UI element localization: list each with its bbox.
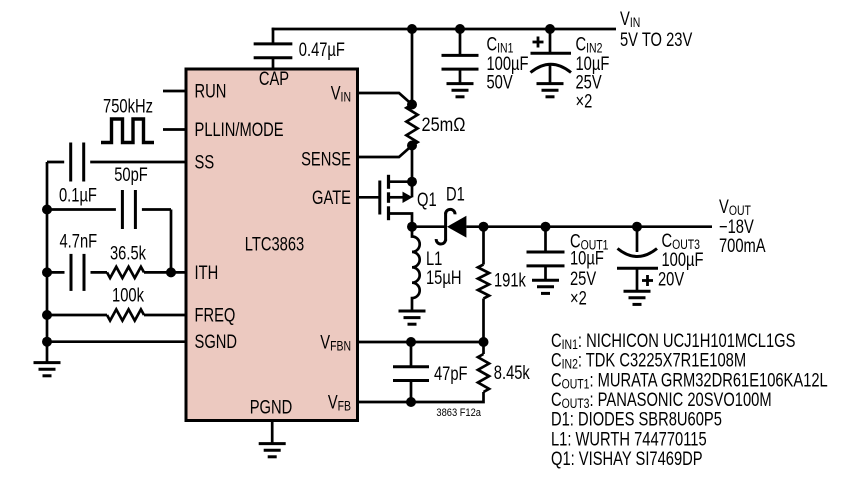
ground COUT1	[532, 279, 559, 282]
resistor 36.5k	[107, 267, 144, 278]
svg-text:FREQ: FREQ	[195, 305, 236, 326]
resistor 191k	[478, 265, 489, 299]
wire D1 anode to VOUT rail	[466, 225, 712, 228]
capacitor COUT3 straight plate	[617, 267, 658, 270]
wire CAP pin stub	[272, 58, 275, 69]
wire 47pF top stub	[410, 342, 413, 367]
wire VFBN pin	[358, 341, 484, 344]
wire COUT1 to ground	[544, 266, 547, 280]
capacitor CIN2 curved plate	[531, 64, 572, 72]
wire RUN pin stub	[163, 90, 186, 93]
svg-text:3863 F12a: 3863 F12a	[436, 407, 481, 419]
node COUT1 junction	[541, 222, 551, 232]
wire CIN2 to ground	[549, 65, 552, 83]
svg-text:Q1: VISHAY SI7469DP: Q1: VISHAY SI7469DP	[551, 448, 703, 469]
wire 50pF down to ITH	[170, 210, 173, 273]
transistor Q1 body arrow	[389, 196, 404, 199]
ground left rail	[34, 361, 61, 364]
transistor Q1 gate bar	[378, 181, 381, 215]
node VFBN 47pF junction	[406, 337, 416, 347]
wire SGND line	[47, 340, 186, 343]
svg-text:20V: 20V	[658, 269, 685, 290]
node 50pF rail junction	[42, 205, 52, 215]
svg-text:SS: SS	[195, 152, 215, 173]
svg-text:PGND: PGND	[250, 397, 293, 418]
wire FREQ line	[47, 314, 107, 317]
transistor Q1 source stub	[389, 180, 413, 183]
svg-text:×2: ×2	[576, 91, 593, 112]
wire sense resistor to Q1 source	[411, 146, 414, 182]
wire COUT3 to ground	[636, 268, 639, 290]
svg-text:SGND: SGND	[195, 331, 238, 352]
svg-text:0.47µF: 0.47µF	[299, 39, 345, 60]
wire CIN1 to ground	[459, 69, 462, 83]
capacitor COUT3 curved plate	[618, 249, 658, 257]
svg-text:×2: ×2	[570, 288, 587, 309]
svg-text:5V TO 23V: 5V TO 23V	[620, 29, 693, 50]
capacitor COUT1	[527, 251, 565, 254]
node top rail to sense resistor	[407, 24, 417, 34]
svg-text:LTC3863: LTC3863	[245, 234, 304, 255]
svg-text:ITH: ITH	[195, 262, 219, 283]
wire VOUT junction to 191k	[482, 227, 485, 265]
svg-text:GATE: GATE	[312, 187, 351, 208]
wire 8.45k top	[482, 342, 485, 354]
wire VIN pin to sense resistor top	[358, 93, 413, 105]
polarity + for CIN2	[533, 41, 544, 44]
node CIN2 junction	[545, 24, 555, 34]
wire 8.45k to VFB pin	[358, 392, 484, 402]
svg-text:0.1µF: 0.1µF	[59, 185, 97, 206]
capacitor CIN1	[442, 54, 479, 57]
svg-text:L1: WURTH 744770115: L1: WURTH 744770115	[551, 428, 707, 449]
node Q1 source	[407, 177, 417, 187]
svg-text:100k: 100k	[112, 285, 144, 306]
wire switch node to D1 cathode	[412, 225, 446, 228]
resistor 100k	[107, 309, 144, 320]
wire top rail corner to 0.47uF	[272, 28, 275, 44]
wire PGND stub	[271, 421, 274, 443]
wire CIN2 stub	[549, 29, 552, 53]
svg-text:25mΩ: 25mΩ	[422, 114, 466, 135]
svg-text:8.45k: 8.45k	[494, 362, 530, 383]
svg-text:191k: 191k	[494, 270, 526, 291]
svg-text:25V: 25V	[570, 268, 597, 289]
node VOUT 191k junction	[479, 222, 489, 232]
node ITH rail junction	[42, 267, 52, 277]
svg-text:RUN: RUN	[195, 81, 227, 102]
capacitor 0.1uF	[69, 143, 72, 182]
wire left ground rail	[46, 162, 49, 362]
wire 191k to VFBN	[482, 299, 485, 343]
node sense bottom	[407, 141, 417, 151]
resistor 8.45k	[478, 354, 489, 392]
svg-text:10µF: 10µF	[570, 248, 604, 269]
ground COUT3	[624, 290, 651, 293]
svg-text:CAP: CAP	[259, 68, 289, 89]
node FREQ rail junction	[42, 310, 52, 320]
svg-text:36.5k: 36.5k	[110, 243, 146, 264]
svg-text:100µF: 100µF	[662, 249, 704, 270]
wire SS pin with 0.1uF cap	[47, 161, 64, 164]
ground CIN1	[447, 82, 474, 85]
ground CIN2	[537, 82, 564, 85]
svg-text:50pF: 50pF	[114, 164, 148, 185]
wire 4.7nF to 36.5k	[91, 271, 108, 274]
clock square wave symbol	[101, 119, 154, 143]
wire Q1 body to source	[411, 182, 414, 198]
svg-text:750kHz: 750kHz	[103, 96, 153, 117]
wire 47pF bottom stub	[410, 381, 413, 403]
diode D1 cathode bar with schottky hooks	[444, 213, 447, 241]
wire 36.5k to ITH pin	[144, 271, 186, 274]
svg-text:Q1: Q1	[417, 189, 437, 210]
capacitor 4.7nF	[70, 254, 73, 291]
wire PLLIN/MODE pin stub	[163, 128, 186, 131]
ground L1	[399, 310, 426, 313]
wire COUT3 stub	[636, 227, 639, 252]
capacitor 50pF	[121, 190, 124, 229]
node COUT3 junction	[632, 222, 642, 232]
wire ITH line left	[47, 271, 65, 274]
resistor 25mohm	[406, 105, 417, 146]
node switch node	[407, 222, 417, 232]
wire GATE pin to Q1 gate	[358, 196, 381, 199]
svg-text:PLLIN/MODE: PLLIN/MODE	[195, 119, 284, 140]
transistor Q1 channel segments	[387, 175, 390, 189]
capacitor 47pF	[393, 365, 429, 368]
wire 50pF line	[47, 208, 116, 211]
ground PGND	[259, 442, 286, 445]
node sense top	[407, 100, 417, 110]
node VFB 47pF junction	[406, 397, 416, 407]
svg-text:15µH: 15µH	[426, 267, 461, 288]
wire top VIN rail	[272, 28, 616, 31]
node SGND rail junction	[42, 337, 52, 347]
transistor Q1 drain stub	[389, 214, 413, 227]
wire CIN1 stub	[459, 29, 462, 55]
wire COUT1 stub	[544, 227, 547, 252]
svg-text:D1: DIODES SBR8U60P5: D1: DIODES SBR8U60P5	[551, 409, 722, 430]
node CIN1 junction	[455, 24, 465, 34]
svg-text:4.7nF: 4.7nF	[60, 231, 98, 252]
polarity + for COUT3	[642, 279, 653, 282]
capacitor CIN2 straight plate	[531, 52, 572, 55]
wire SENSE pin to sense resistor bottom	[358, 146, 413, 158]
svg-text:D1: D1	[446, 184, 465, 205]
inductor L1	[412, 227, 420, 310]
svg-text:700mA: 700mA	[719, 235, 766, 256]
wire down to 25mohm resistor	[411, 29, 414, 105]
diode D1 triangle	[447, 216, 466, 238]
svg-text:50V: 50V	[487, 72, 514, 93]
capacitor 0.47uF across CAP	[254, 42, 293, 45]
svg-text:SENSE: SENSE	[301, 149, 351, 170]
IC U1 LTC3863 body	[186, 69, 358, 421]
node ITH 50pF junction	[166, 267, 176, 277]
svg-text:47pF: 47pF	[434, 363, 468, 384]
node VFBN 8.45k junction	[479, 337, 489, 347]
